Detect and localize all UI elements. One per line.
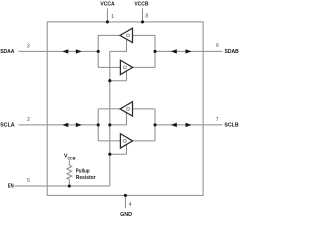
svg-text:SDAB: SDAB <box>225 49 239 55</box>
svg-text:SCLA: SCLA <box>0 123 15 129</box>
node pullup EN junction <box>68 184 71 187</box>
wire SCL bottom buffer input <box>98 140 120 142</box>
wire GND stub <box>124 195 126 208</box>
svg-text:6: 6 <box>216 43 219 49</box>
buffer SDA A-to-B (points right) <box>120 60 132 74</box>
wire SCLA line <box>19 124 99 126</box>
svg-text:3: 3 <box>27 43 30 49</box>
wire VCCB pullup lead <box>68 160 70 165</box>
wire EN vertical rail <box>109 51 111 186</box>
arrow SDAA right <box>76 49 82 53</box>
wire SDA bottom buffer input <box>98 66 120 68</box>
arrow SDAB right <box>186 49 192 53</box>
svg-text:1: 1 <box>111 14 114 20</box>
resistor pullup zigzag <box>67 165 72 179</box>
node SCLA junction <box>97 123 100 126</box>
arrow SCLA right <box>76 123 82 127</box>
wire SCL top buffer input <box>133 108 156 110</box>
wire EN line <box>15 185 110 187</box>
svg-text:EN: EN <box>8 183 14 189</box>
node VCCA junction <box>106 20 109 23</box>
arrow SCLB left <box>171 123 177 127</box>
node SCL staircase junction <box>108 123 111 126</box>
buffer SCL A-to-B (points right) <box>120 134 132 148</box>
svg-text:VCCA: VCCA <box>100 2 115 8</box>
wire SCLB line <box>155 124 222 126</box>
wire SCL bottom buffer enable tap <box>126 145 128 155</box>
wire SDAB line <box>155 50 222 52</box>
wire SDA top buffer enable tap <box>110 39 127 51</box>
node VCCB junction <box>141 20 144 23</box>
wire SCL top buffer output <box>98 108 120 110</box>
arrow SCLB right <box>186 123 192 127</box>
wire SDA bottom buffer output <box>133 66 155 68</box>
svg-text:CCB: CCB <box>68 155 76 160</box>
wire SCL top buffer enable tap <box>110 113 127 125</box>
arrow SDAB left <box>171 49 177 53</box>
wire pullup bottom lead <box>68 179 70 186</box>
svg-text:7: 7 <box>216 117 219 123</box>
wire SDA bottom buffer enable tap <box>126 71 128 81</box>
wire SCL bottom buffer output <box>133 140 155 142</box>
svg-text:Resistor: Resistor <box>76 175 96 181</box>
wire SDA top buffer input <box>133 34 156 36</box>
wire SDA enable rail <box>110 80 127 82</box>
svg-text:8: 8 <box>145 14 148 20</box>
wire SDA left vertical <box>97 35 99 67</box>
wire SDA right vertical <box>154 35 156 67</box>
wire SDAA line <box>19 50 99 52</box>
svg-text:Pullup: Pullup <box>76 169 90 175</box>
svg-text:SDAA: SDAA <box>0 49 15 55</box>
svg-text:2: 2 <box>27 117 30 123</box>
buffer SCL B-to-A (points left) <box>120 102 133 116</box>
node SDA enable rail junction <box>108 79 111 82</box>
svg-text:VCCB: VCCB <box>134 2 148 8</box>
wire SCL right vertical <box>154 109 156 141</box>
svg-text:5: 5 <box>27 178 30 184</box>
wire VCCA stub <box>106 8 108 22</box>
wire SDA top buffer output <box>98 34 120 36</box>
wire SCL enable rail <box>110 153 127 155</box>
node SCLB junction <box>153 123 156 126</box>
wire SCL left vertical <box>97 109 99 141</box>
node SDAA junction <box>97 50 100 53</box>
node SDAB junction <box>153 50 156 53</box>
arrow SDAA left <box>62 49 68 53</box>
arrow SCLA left <box>62 123 68 127</box>
svg-text:SCLB: SCLB <box>224 123 238 129</box>
node SCL enable rail junction <box>108 153 111 156</box>
svg-text:GND: GND <box>120 212 132 218</box>
buffer SDA B-to-A (points left) <box>120 28 133 42</box>
wire VCCB stub <box>142 8 144 22</box>
svg-text:4: 4 <box>129 202 132 208</box>
node GND junction <box>124 194 127 197</box>
IC boundary box <box>47 22 203 196</box>
